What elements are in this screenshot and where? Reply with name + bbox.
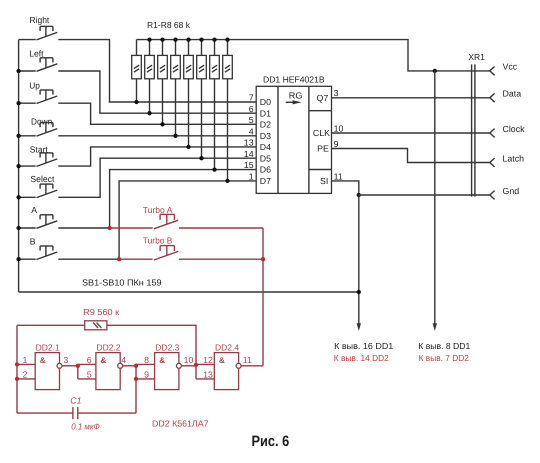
svg-text:SB1-SB10 ПКн 159: SB1-SB10 ПКн 159 bbox=[82, 278, 162, 288]
wire B to D7 bbox=[58, 181, 256, 259]
svg-text:PE: PE bbox=[317, 144, 329, 154]
junction SI-Gnd bbox=[357, 193, 361, 197]
junction out DD2.2 bbox=[134, 364, 138, 368]
svg-text:Latch: Latch bbox=[503, 153, 525, 163]
wire bus to switch SB A bbox=[19, 227, 36, 229]
wire link2 vertical bbox=[135, 364, 137, 413]
svg-text:Q7: Q7 bbox=[317, 93, 329, 103]
wire bus to switch SB Up bbox=[19, 102, 36, 104]
wire Vcc vertical down bbox=[434, 71, 436, 324]
wire bus to switch SB Start bbox=[19, 165, 36, 167]
push-button switch Left bbox=[37, 64, 58, 72]
wire bus to switch SB Select bbox=[19, 196, 36, 198]
svg-text:12: 12 bbox=[203, 355, 213, 365]
svg-text:13: 13 bbox=[244, 138, 254, 148]
svg-text:&: & bbox=[219, 356, 225, 365]
wire Turbo A right bbox=[179, 227, 263, 229]
pin XR1 Vcc arrow bbox=[490, 67, 495, 76]
wire Right to D0 bbox=[58, 40, 256, 102]
wire pin5 DD2.2 bbox=[78, 378, 96, 380]
svg-text:К выв. 14 DD2: К выв. 14 DD2 bbox=[334, 353, 389, 363]
svg-text:Select: Select bbox=[30, 174, 55, 184]
svg-text:10: 10 bbox=[334, 123, 344, 133]
wire Down to D3 bbox=[58, 135, 256, 137]
svg-text:R1-R8 68 k: R1-R8 68 k bbox=[147, 20, 191, 30]
wire out DD2.1 bbox=[62, 365, 78, 367]
svg-text:2: 2 bbox=[22, 369, 27, 379]
junction pin1 bbox=[15, 362, 19, 366]
svg-text:C1: C1 bbox=[70, 396, 81, 406]
op-chip DD1 HEF4021B body bbox=[256, 86, 331, 193]
svg-text:5: 5 bbox=[87, 369, 92, 379]
junction bus A bbox=[16, 226, 20, 230]
push-button switch Turbo B bbox=[154, 251, 178, 260]
junction Turbo B / oscillator bbox=[261, 257, 265, 261]
svg-text:DD1 HEF4021B: DD1 HEF4021B bbox=[263, 75, 325, 85]
svg-text:&: & bbox=[40, 356, 46, 365]
junction bus B bbox=[16, 257, 20, 261]
wire Left to D1 bbox=[58, 71, 256, 113]
svg-text:3: 3 bbox=[63, 355, 68, 365]
wire bottom common bus horizontal bbox=[19, 291, 359, 293]
junction R3 top bbox=[160, 37, 164, 41]
wire left oscillator vertical bbox=[16, 325, 18, 413]
gate DD2.3 bbox=[155, 353, 179, 390]
junction R6 top bbox=[199, 37, 203, 41]
junction ground net / button bus bbox=[357, 290, 361, 294]
junction node B tap bbox=[117, 257, 121, 261]
svg-text:D3: D3 bbox=[260, 131, 271, 141]
svg-text:DD2.2: DD2.2 bbox=[97, 342, 121, 352]
svg-text:Down: Down bbox=[31, 116, 52, 126]
push-button switch Select bbox=[37, 190, 58, 198]
svg-text:6: 6 bbox=[249, 104, 254, 114]
resistor R5 bbox=[184, 55, 194, 78]
arrow to pin8 DD1 net bbox=[433, 323, 437, 331]
wire pin2 DD2.1 bbox=[17, 378, 35, 380]
junction out DD2.3 bbox=[194, 363, 198, 367]
wire Start to D4 bbox=[58, 147, 256, 166]
junction R5 bottom bbox=[186, 145, 190, 149]
wire link1 vertical bbox=[77, 364, 79, 379]
wire out DD2.2 bbox=[123, 365, 136, 367]
wire bus to switch SB Left bbox=[19, 70, 36, 72]
pin XR1 Data arrow bbox=[490, 93, 495, 102]
svg-text:A: A bbox=[31, 205, 37, 215]
wire link3 vertical bbox=[195, 364, 197, 379]
junction bus Select bbox=[16, 195, 20, 199]
pin XR1 Clock arrow bbox=[490, 129, 495, 138]
junction pin2 bbox=[15, 377, 19, 381]
svg-text:DD2.1: DD2.1 bbox=[36, 342, 60, 352]
junction R5 top bbox=[186, 37, 190, 41]
resistor R1 bbox=[132, 55, 142, 78]
wire Turbo B right bbox=[179, 258, 263, 260]
push-button switch Down bbox=[37, 129, 58, 137]
svg-text:14: 14 bbox=[244, 149, 254, 159]
wire oscillator output vertical bbox=[262, 228, 264, 366]
pin XR1 Latch arrow bbox=[490, 158, 495, 167]
svg-text:1: 1 bbox=[22, 355, 27, 365]
svg-text:SI: SI bbox=[320, 176, 328, 186]
svg-text:15: 15 bbox=[244, 160, 254, 170]
junction bus Down bbox=[16, 134, 20, 138]
svg-text:XR1: XR1 bbox=[468, 52, 485, 62]
wire pin12 DD2.4 bbox=[196, 363, 214, 365]
svg-text:&: & bbox=[101, 356, 107, 365]
svg-text:Clock: Clock bbox=[503, 124, 526, 134]
resistor R3 bbox=[158, 55, 168, 78]
svg-text:К выв. 7 DD2: К выв. 7 DD2 bbox=[419, 353, 469, 363]
wire resistor top bus to Vcc bbox=[137, 40, 490, 71]
svg-text:3: 3 bbox=[334, 88, 339, 98]
svg-text:D1: D1 bbox=[260, 108, 271, 118]
junction R4 bottom bbox=[173, 134, 177, 138]
svg-text:Right: Right bbox=[30, 15, 50, 25]
junction bus Up bbox=[16, 101, 20, 105]
wire pin1 DD2.1 bbox=[17, 363, 35, 365]
junction R4 top bbox=[173, 37, 177, 41]
svg-text:DD2.4: DD2.4 bbox=[215, 342, 239, 352]
svg-text:R9 560 к: R9 560 к bbox=[83, 307, 119, 317]
wire ground net vertical down bbox=[358, 195, 360, 324]
resistor R2 bbox=[145, 55, 155, 78]
svg-text:К выв. 16 DD1: К выв. 16 DD1 bbox=[334, 341, 393, 351]
junction R3 bottom bbox=[160, 122, 164, 126]
junction R8 bottom bbox=[225, 179, 229, 183]
wire bus to switch SB Right bbox=[19, 39, 36, 41]
svg-text:B: B bbox=[30, 237, 36, 247]
wire CLK to Clock bbox=[332, 132, 490, 134]
wire R9 rail left bbox=[17, 324, 85, 326]
push-button switch Turbo A bbox=[154, 220, 178, 229]
push-button switch Up bbox=[37, 96, 58, 104]
wire bus to switch SB Down bbox=[19, 135, 36, 137]
wire pin13 DD2.4 bbox=[196, 378, 214, 380]
svg-text:0.1 мкФ: 0.1 мкФ bbox=[71, 422, 100, 432]
junction node A tap bbox=[107, 226, 111, 230]
wire C1 rail left bbox=[17, 412, 73, 414]
wire PE to Latch bbox=[332, 149, 490, 163]
wire R9 rail right bbox=[107, 325, 196, 364]
svg-text:Data: Data bbox=[503, 89, 522, 99]
arrow to pin16 DD1 net bbox=[357, 323, 361, 331]
gate DD2.4 bbox=[214, 353, 238, 390]
svg-text:Up: Up bbox=[29, 80, 40, 90]
svg-text:Turbo B: Turbo B bbox=[143, 235, 173, 245]
junction R1 bottom bbox=[134, 100, 138, 104]
junction out DD2.1 bbox=[76, 364, 80, 368]
svg-text:Turbo A: Turbo A bbox=[143, 205, 173, 215]
capacitor C1 bbox=[72, 407, 74, 419]
wire out DD2.4 bbox=[241, 365, 263, 367]
junction link2 pin9 bbox=[134, 377, 138, 381]
resistor R8 bbox=[223, 55, 233, 78]
svg-text:&: & bbox=[159, 356, 165, 365]
wire Up to D2 bbox=[58, 103, 256, 124]
svg-text:D2: D2 bbox=[260, 119, 271, 129]
resistor R4 bbox=[171, 55, 181, 78]
push-button switch B bbox=[37, 252, 58, 260]
push-button switch Start bbox=[37, 159, 58, 167]
svg-text:7: 7 bbox=[249, 93, 254, 103]
resistor R9 bbox=[85, 321, 107, 330]
svg-text:К выв. 8 DD1: К выв. 8 DD1 bbox=[418, 341, 470, 351]
resistor R7 bbox=[210, 55, 220, 78]
pin XR1 Gnd arrow bbox=[490, 191, 495, 200]
push-button switch A bbox=[37, 221, 58, 229]
svg-text:10: 10 bbox=[184, 355, 194, 365]
wire A to D6 bbox=[58, 170, 256, 228]
junction bus Start bbox=[16, 164, 20, 168]
gate DD2.1 bbox=[35, 353, 59, 390]
junction bus Left bbox=[16, 69, 20, 73]
junction R2 top bbox=[147, 37, 151, 41]
svg-text:Vcc: Vcc bbox=[503, 62, 518, 72]
junction Vcc branch bbox=[433, 69, 437, 73]
wire pin6 DD2.2 bbox=[78, 363, 96, 365]
svg-text:Рис. 6: Рис. 6 bbox=[252, 433, 290, 450]
junction R7 bottom bbox=[212, 167, 216, 171]
wire Turbo A left bbox=[110, 227, 153, 229]
wire left common bus vertical bbox=[18, 40, 20, 292]
junction R2 bottom bbox=[147, 111, 151, 115]
wire SI to Gnd net bbox=[332, 181, 359, 195]
svg-text:5: 5 bbox=[249, 115, 254, 125]
svg-text:RG: RG bbox=[289, 90, 303, 100]
svg-text:DD2 К561ЛА7: DD2 К561ЛА7 bbox=[152, 419, 209, 429]
svg-text:11: 11 bbox=[334, 172, 343, 182]
gate DD2.2 bbox=[96, 353, 120, 390]
shift arrow inside DD1 bbox=[286, 101, 294, 103]
wire out DD2.3 bbox=[182, 365, 197, 367]
resistor R6 bbox=[197, 55, 207, 78]
svg-text:9: 9 bbox=[144, 369, 149, 379]
svg-text:D0: D0 bbox=[260, 97, 271, 107]
svg-text:Gnd: Gnd bbox=[503, 186, 520, 196]
push-button switch Right bbox=[37, 32, 58, 40]
svg-text:11: 11 bbox=[243, 355, 252, 365]
svg-text:4: 4 bbox=[121, 355, 126, 365]
svg-text:D4: D4 bbox=[260, 142, 271, 152]
svg-text:8: 8 bbox=[144, 355, 149, 365]
junction R7 top bbox=[212, 37, 216, 41]
svg-text:6: 6 bbox=[87, 355, 92, 365]
wire C1 rail right bbox=[78, 412, 136, 414]
wire pin8 DD2.3 bbox=[136, 363, 155, 365]
junction R8 top bbox=[225, 37, 229, 41]
svg-text:1: 1 bbox=[249, 172, 254, 182]
wire bus to switch SB B bbox=[19, 258, 36, 260]
wire pin9 DD2.3 bbox=[136, 378, 155, 380]
svg-text:CLK: CLK bbox=[313, 128, 330, 138]
svg-text:D6: D6 bbox=[260, 165, 271, 175]
svg-text:4: 4 bbox=[249, 126, 254, 136]
wire Select to D5 bbox=[58, 158, 256, 197]
wire Gnd row bbox=[359, 194, 490, 196]
svg-text:DD2.3: DD2.3 bbox=[155, 342, 179, 352]
svg-text:D5: D5 bbox=[260, 153, 271, 163]
wire Turbo B left bbox=[119, 258, 153, 260]
junction R6 bottom bbox=[199, 156, 203, 160]
svg-text:13: 13 bbox=[203, 369, 213, 379]
svg-text:9: 9 bbox=[334, 139, 339, 149]
svg-text:D7: D7 bbox=[260, 176, 271, 186]
connector XR1 body bbox=[471, 64, 473, 196]
wire Q7 to Data bbox=[332, 97, 490, 99]
